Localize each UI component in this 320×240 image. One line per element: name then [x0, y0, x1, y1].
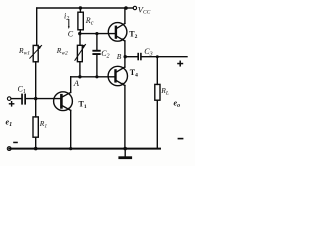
svg-text:A: A: [73, 78, 80, 88]
svg-text:B: B: [117, 52, 122, 61]
svg-text:C: C: [68, 29, 74, 38]
